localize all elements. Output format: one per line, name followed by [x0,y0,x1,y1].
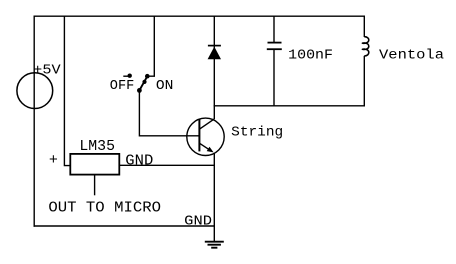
diode D1 cathode bar [208,45,221,47]
wire: switch pole to transistor base [139,90,199,135]
svg-text:LM35: LM35 [79,138,115,155]
svg-text:Ventola: Ventola [379,49,444,64]
wire: bottom GND rail [34,225,216,227]
svg-text:String: String [231,126,283,141]
capacitor C1 plates [267,43,282,50]
wire: LM35 output lead [94,175,96,196]
transistor Q1 (NPN) [187,118,224,155]
wire: capacitor top lead [273,16,275,43]
switch SW1 OFF contact stub [123,75,129,77]
sensor LM35 (box) [70,154,119,175]
wire: right rail lower [363,56,365,106]
wire: LM35 GND to emitter node [119,164,215,166]
svg-text:GND: GND [125,153,153,170]
wire: emitter down to ground [213,153,215,241]
wire: right rail upper [363,16,365,38]
svg-text:ON: ON [156,79,174,94]
svg-text:+5V: +5V [33,64,61,79]
wire: diode / collector branch [213,16,215,120]
switch SW1 lever tip dot [142,80,146,84]
wire: switch feed from top rail [147,16,154,76]
switch SW1 ON contact dot [145,74,150,79]
switch SW1 OFF contact dot [128,74,132,78]
wire: collector node rail to fan [214,105,365,107]
wire: capacitor bottom lead [273,49,275,106]
svg-text:+: + [49,152,58,169]
wire: branch to LM35 + pin [64,16,70,165]
wire: top +5V rail [34,15,366,17]
svg-text:OFF: OFF [110,79,135,94]
switch SW1 lever [139,77,147,91]
svg-text:GND: GND [184,215,212,230]
power source +5V (circle) [17,73,53,109]
ground symbol [205,242,224,248]
wire: left rail (through +5V source) [33,16,35,227]
switch SW1 pole dot [137,88,142,93]
svg-text:100nF: 100nF [288,49,333,64]
svg-text:OUT TO MICRO: OUT TO MICRO [48,200,161,217]
inductor / fan coil (Ventola) [362,37,368,56]
diode D1 anode triangle [208,47,221,60]
